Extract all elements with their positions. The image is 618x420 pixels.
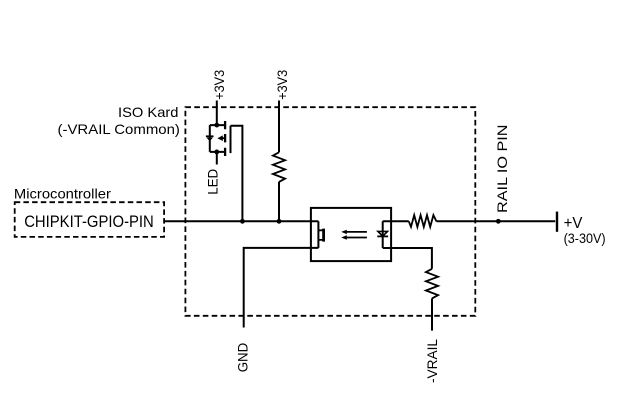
- svg-text:LED: LED: [205, 169, 221, 195]
- svg-text:ISO Kard: ISO Kard: [118, 104, 179, 120]
- svg-text:RAIL IO PIN: RAIL IO PIN: [494, 125, 510, 214]
- svg-text:(3-30V): (3-30V): [564, 231, 606, 246]
- svg-text:+3V3: +3V3: [211, 70, 227, 100]
- svg-text:CHIPKIT-GPIO-PIN: CHIPKIT-GPIO-PIN: [24, 212, 154, 231]
- svg-text:(-VRAIL Common): (-VRAIL Common): [58, 121, 180, 137]
- svg-text:-VRAIL: -VRAIL: [424, 339, 440, 383]
- svg-text:GND: GND: [235, 343, 251, 373]
- svg-text:Microcontroller: Microcontroller: [14, 186, 111, 202]
- svg-text:+V: +V: [564, 215, 583, 232]
- svg-text:+3V3: +3V3: [274, 70, 290, 100]
